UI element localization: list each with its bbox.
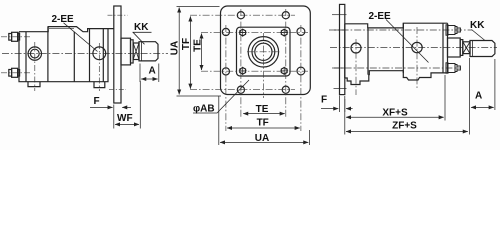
svg-text:XF+S: XF+S [382,108,408,119]
wire: upper bolt centerline (right view) [329,29,472,31]
rear cover (right view) [442,23,444,73]
leader for 2-EE (left view) [64,23,98,52]
dimension WF (left view) [114,81,141,129]
svg-text:A: A [149,66,156,77]
svg-text:KK: KK [134,22,149,33]
body section line (right view) [402,23,404,73]
side port circle left-upper [222,28,229,35]
mounting flange (left view) [114,6,121,103]
body section line 3 [89,29,91,82]
dimension XF+S (right view) [345,75,445,121]
flange bolt row ticks [334,29,346,31]
flange plate outline (front view) [221,6,311,95]
stud nut stack lower right [446,63,460,73]
side hole circle right-lower [297,67,305,75]
center shaft hole [255,43,272,60]
hex bolt bottom-right (front view) [280,67,288,75]
side port circle left-lower [222,68,229,75]
cover circle (left view) [93,47,106,60]
flange hole row ticks [332,14,347,16]
dimension F (right view) [321,96,353,113]
shaft key section with cross (right view) [463,42,470,54]
node: vertical centerline col B [285,9,287,118]
hidden port line (left view) [49,27,74,29]
svg-text:WF: WF [117,113,133,124]
shaft boss step (right view) [460,40,463,56]
stud nut stack upper right [446,25,460,35]
body section line at step [47,27,49,82]
node: horizontal centerline row holes-bottom [190,89,295,91]
body section line 2 [73,32,75,82]
dimension F (left view) [90,106,131,108]
leader for KK (left view) [133,32,152,44]
node: vertical centerline col A [240,9,242,118]
wire: stud centerline upper (left view) [1,36,30,38]
wire: vertical centerline right circle (right view) [416,27,418,88]
body section line at step (right view) [367,28,369,75]
hex bolt top-left (front view) [239,29,247,37]
dimension UA vertical (front view) [177,7,222,97]
svg-text:UA: UA [170,41,181,55]
stud with nut, upper left [9,32,20,41]
flange hole row centerline (left view) [108,14,128,16]
svg-text:A: A [475,91,482,102]
node: vertical centerline col TF-right [300,25,302,131]
wire: lower bolt centerline (right view) [332,67,461,69]
svg-text:F: F [321,95,327,106]
port circle left (right view) [351,43,361,53]
leader for KK (right view) [472,30,486,41]
wire: main shaft centerline (right view) [330,47,497,49]
node: horizontal centerline row center [247,51,280,53]
stud with nut, lower left [9,68,20,77]
shaft end (right view) [470,41,495,57]
dimension ZF+S (right view) [345,121,468,135]
svg-text:TF: TF [257,118,269,129]
hex bolt top-right (front view) [280,29,288,37]
pump body outline (front view) [237,27,291,76]
port circle right (right view) [412,42,422,52]
centerline grid (front view) [190,9,308,131]
body bottom foot profile (right view) [345,71,448,85]
svg-text:TF: TF [181,38,192,50]
wire: main shaft centerline (left view) [2,53,168,55]
side hole circle right-upper [297,28,305,36]
wire: port vertical centerline (left view) [34,42,36,91]
shaft end (left view) [139,42,158,61]
shaft key section with cross (left view) [133,43,139,60]
hex bolt bottom-left (front view) [239,67,247,75]
dimension TF vertical (front view) [189,16,191,88]
body section line 1 [25,32,27,82]
pump body (left view) [19,27,114,82]
mounting hole top-right [282,12,289,19]
wire: vertical centerline left circle (right view) [355,39,357,95]
svg-text:F: F [94,96,100,107]
wire: cover circle vertical centerline (left view) [98,43,100,91]
dimension A (left view) [140,64,159,83]
node: horizontal centerline row bolts-top [201,31,308,33]
svg-text:2-EE: 2-EE [52,14,75,25]
leader for 2-EE (right view) [386,20,429,63]
dimension A (right view) [470,58,495,135]
node: horizontal centerline row holes-top [190,14,295,16]
pump body outline top (right view) [345,23,448,28]
mounting hole top-left [237,12,244,19]
center pilot circle [252,40,275,63]
drain tab under body left [28,82,40,87]
dimension UA bottom (front view) [219,96,310,145]
shaft boss step 2 (left view) [131,40,134,63]
svg-text:ZF+S: ZF+S [392,121,417,132]
svg-text:TE: TE [256,104,269,115]
body left section from flange [344,24,346,78]
center boss circle outer [248,37,278,67]
port boss circle (left view) [28,47,41,60]
dimension TE bottom (front view) [243,113,285,115]
mounting hole bottom-right [282,86,289,93]
mounting flange plate (right view) [340,4,345,94]
shaft boss step 1 (left view) [121,38,131,65]
svg-text:KK: KK [470,20,485,31]
wire: stud centerline lower (left view) [1,72,30,74]
node: horizontal centerline row bolts-bottom [201,70,308,72]
dimension TE vertical (front view) [201,34,203,71]
body section line 4 [102,29,104,82]
node: vertical centerline col TF-left [225,25,227,131]
drain tab under body right [94,82,105,88]
mounting hole bottom-left [237,86,244,93]
svg-text:2-EE: 2-EE [369,11,392,22]
node: vertical centerline col center [262,33,264,98]
shaft boss (right view) [448,38,461,57]
svg-text:UA: UA [255,133,269,144]
svg-text:TE: TE [192,39,203,52]
dimension TF bottom (front view) [227,127,300,129]
